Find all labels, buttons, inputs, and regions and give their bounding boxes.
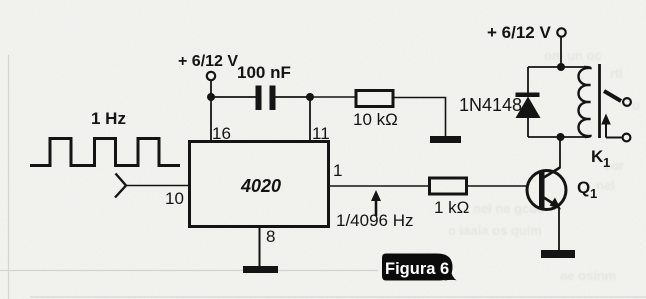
svg-text:10 kΩ: 10 kΩ: [353, 110, 398, 129]
ground for R1: [430, 136, 461, 143]
svg-text:1N4148: 1N4148: [459, 95, 522, 115]
transistor Q1: [527, 171, 566, 210]
svg-text:4020: 4020: [240, 176, 281, 196]
svg-text:10: 10: [165, 189, 184, 208]
wire collector up to relay: [559, 137, 561, 168]
ground for emitter: [541, 250, 575, 258]
wire pin 1 to R2: [329, 185, 429, 187]
ground for pin 8: [243, 266, 278, 273]
svg-text:1: 1: [603, 155, 610, 170]
svg-text:rti: rti: [610, 66, 623, 81]
relay contact NO terminal: [623, 98, 631, 106]
wire R2 to base: [467, 185, 527, 187]
Figura 6 tag: [382, 254, 453, 281]
faint bleedthrough text right side: [448, 48, 640, 283]
svg-text:100 nF: 100 nF: [237, 63, 291, 82]
relay K1 coil: [579, 67, 591, 137]
junction relay bottom: [557, 133, 565, 141]
wire R1 to ground: [393, 98, 446, 137]
junction cap/pin11: [306, 93, 314, 101]
wire relay bottom rail: [528, 136, 588, 138]
faint page-edge line bottom: [0, 270, 378, 272]
capacitor C1 100 nF: [256, 86, 262, 111]
wire common terminal: [606, 137, 622, 139]
wire cap to junction: [275, 96, 310, 98]
svg-text:8: 8: [266, 227, 275, 246]
svg-text:+ 6/12 V: + 6/12 V: [487, 23, 551, 42]
wire input to pin 10: [126, 185, 189, 187]
resistor R2 1 kOhm: [430, 178, 467, 194]
wire square-wave input signal: [30, 139, 180, 166]
svg-text:Figura 6: Figura 6: [385, 260, 449, 278]
relay contact lever: [604, 91, 621, 101]
svg-text:1 Hz: 1 Hz: [91, 109, 126, 128]
faint page-edge line left: [8, 55, 10, 299]
IC U1 4020: [190, 142, 329, 227]
svg-text:11: 11: [312, 124, 330, 143]
wire supply left: [210, 80, 212, 97]
junction supply/cap: [207, 93, 215, 101]
resistor R1 10 kOhm: [356, 91, 393, 107]
svg-text:ae osinm: ae osinm: [560, 268, 616, 283]
relay common terminal: [623, 134, 631, 142]
diode D1 1N4148: [527, 67, 529, 93]
relay actuation arrow: [605, 121, 607, 138]
svg-text:1 kΩ: 1 kΩ: [434, 198, 469, 217]
wire to capacitor: [211, 96, 256, 98]
wire pin 16: [210, 97, 212, 141]
svg-text:1/4096 Hz: 1/4096 Hz: [336, 211, 414, 230]
wire emitter down: [558, 208, 560, 250]
wire pin 11: [309, 97, 311, 141]
svg-text:+ 6/12 V: + 6/12 V: [178, 53, 238, 70]
wire relay top rail: [528, 66, 588, 68]
svg-text:u: u: [632, 98, 640, 113]
svg-text:om un oc: om un oc: [544, 48, 602, 63]
node arrow 1/4096 Hz: [371, 190, 381, 201]
svg-text:16: 16: [212, 124, 231, 143]
node input arrow chevron: [115, 174, 126, 198]
wire supply right: [560, 36, 562, 67]
junction relay top: [557, 63, 565, 71]
svg-text:nel: nel: [596, 178, 615, 193]
svg-text:o iaaia os quim: o iaaia os quim: [448, 223, 542, 238]
svg-text:Q: Q: [577, 178, 590, 197]
svg-text:nel ne gcdo: nel ne gcdo: [473, 201, 545, 216]
wire junction to R1: [310, 96, 356, 98]
svg-text:1: 1: [333, 161, 342, 180]
relay armature bar: [598, 64, 601, 138]
svg-text:1: 1: [590, 186, 597, 201]
wire pin 8 to ground: [259, 227, 261, 266]
